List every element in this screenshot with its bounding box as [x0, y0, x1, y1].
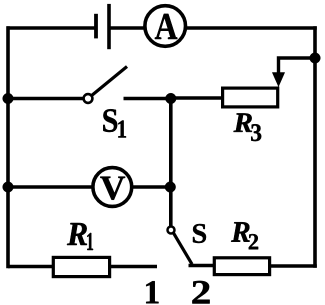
switch S blade (thrown to contact 2)	[174, 233, 192, 264]
wire bottom left	[8, 265, 53, 269]
label R2	[231, 222, 258, 249]
junction dot (middle rail / S1 row)	[166, 93, 177, 104]
wire S1 row right	[124, 97, 172, 101]
label contact 2	[192, 281, 209, 304]
wire S1 junction to R3	[171, 96, 222, 100]
wire contact 2 to R2	[189, 264, 215, 268]
junction dot (wiper tap on right rail)	[310, 53, 321, 64]
label R1	[67, 223, 93, 250]
middle rail	[169, 99, 173, 227]
battery E	[96, 4, 109, 49]
ammeter A	[145, 6, 186, 47]
wire ammeter to top-right corner	[185, 26, 317, 30]
switch S1	[84, 67, 127, 103]
right rail	[313, 26, 317, 268]
rheostat R3	[223, 88, 278, 107]
wire S1 row left	[8, 97, 84, 101]
R3 wiper arrow	[272, 58, 315, 87]
switch S pole	[168, 227, 175, 234]
left rail	[6, 26, 10, 268]
resistor R2	[214, 258, 269, 275]
voltmeter V	[93, 168, 132, 207]
label S1	[103, 109, 126, 137]
wire battery to ammeter	[111, 26, 147, 30]
wire top-left (battery to left rail)	[7, 26, 95, 30]
junction dot (left rail / V row)	[3, 182, 14, 193]
label R3	[234, 113, 262, 141]
wire V row left	[8, 185, 93, 189]
wire R1 to contact 1	[110, 265, 157, 269]
junction dot (middle rail / V row)	[165, 182, 176, 193]
label S	[193, 224, 206, 243]
resistor R1	[53, 257, 109, 276]
wire R2 to right rail	[270, 264, 317, 268]
junction dot (left rail / S1 row)	[3, 93, 14, 104]
label contact 1	[146, 281, 158, 303]
wire V row right	[132, 185, 171, 189]
